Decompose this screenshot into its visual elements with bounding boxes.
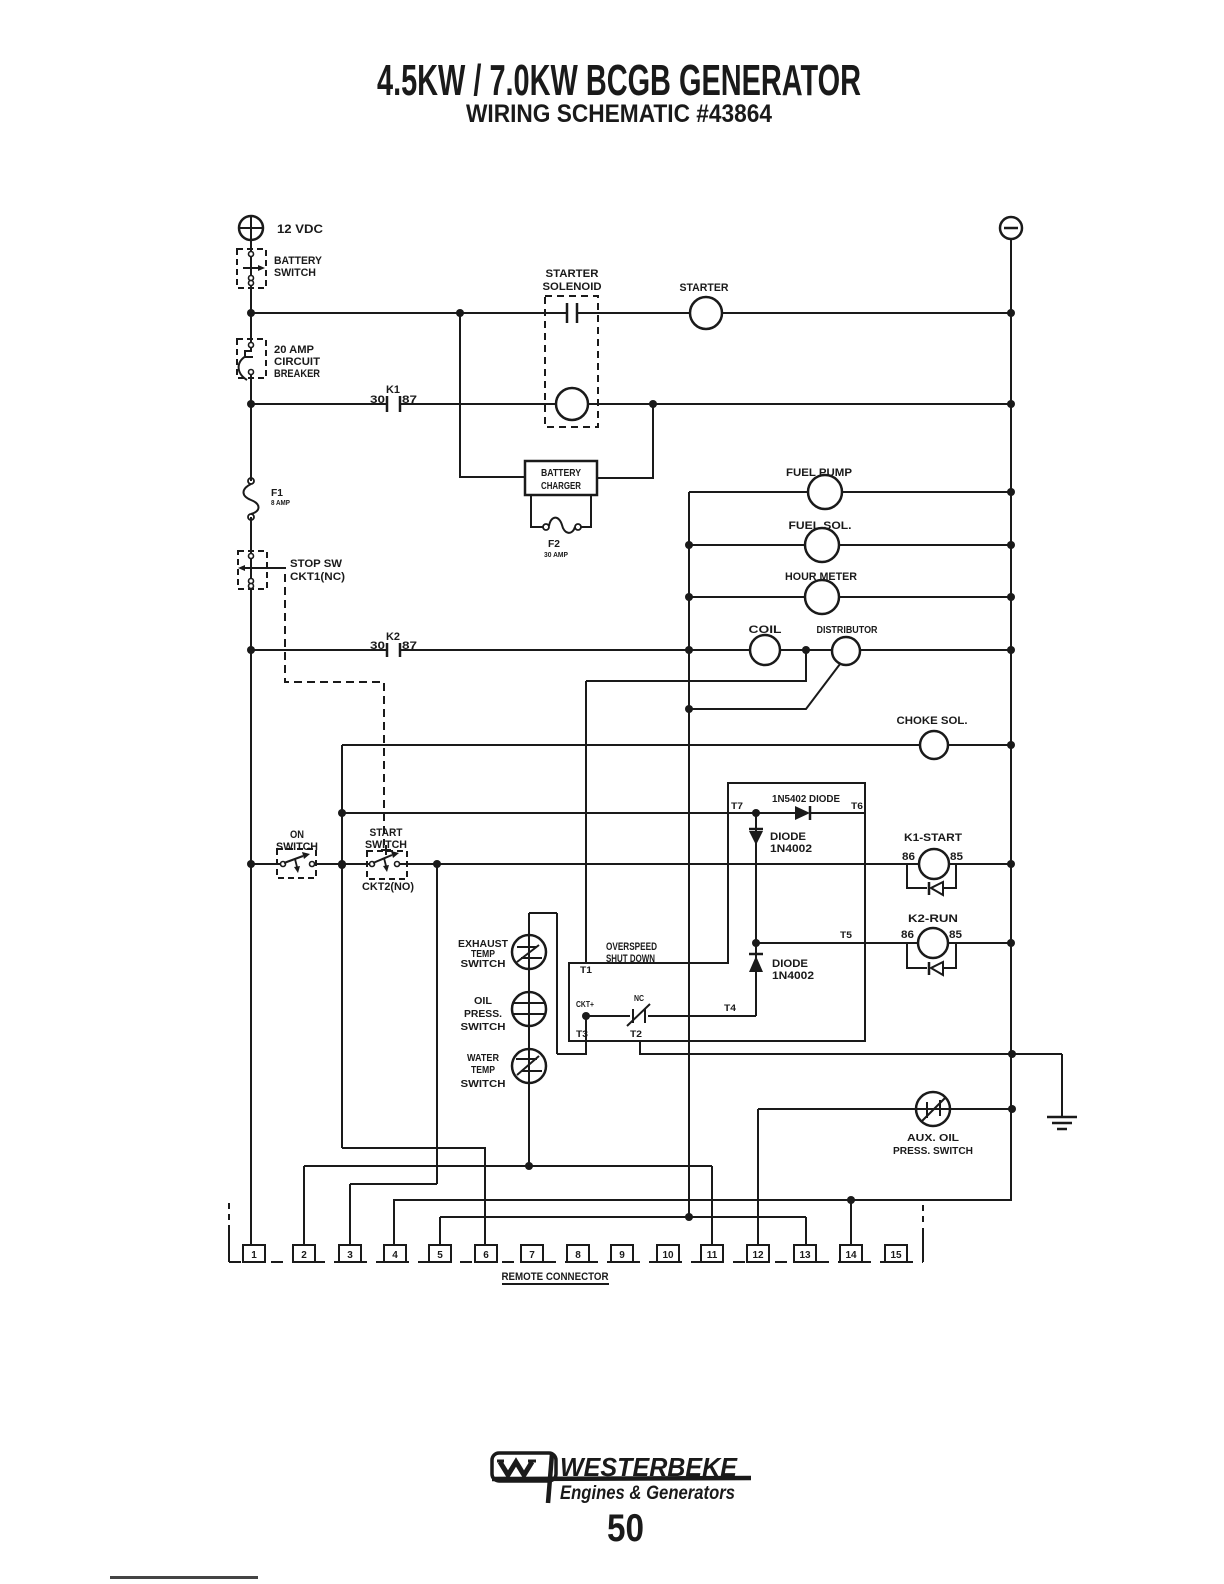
junction: riser x342 / on-start switch rung xyxy=(338,861,346,869)
svg-text:START: START xyxy=(370,827,403,839)
wire: T2 stub down to ground run xyxy=(640,1041,1062,1054)
remote connector pin 14 xyxy=(840,1245,862,1262)
wire: riser x342 choke rung down to pin 6 net xyxy=(341,745,343,1148)
wire: riser to overspeed shutdown terminal T1 xyxy=(585,681,587,963)
START switch CKT2 (NO) (dashed box) xyxy=(367,851,407,879)
wire: drop to pin 14 xyxy=(850,1200,852,1245)
svg-text:WESTERBEKE: WESTERBEKE xyxy=(560,1452,738,1482)
junction: center bus / hour meter rung xyxy=(685,593,693,601)
junction: riser x342 / T7 diode line xyxy=(338,809,346,817)
wire: START switch via K1 relay coil to neg bus xyxy=(399,863,1011,865)
NC contact of overspeed switch xyxy=(632,1009,634,1023)
svg-text:CKT+: CKT+ xyxy=(576,1000,594,1009)
svg-text:1N4002: 1N4002 xyxy=(772,970,814,982)
Westerbeke W glyph xyxy=(500,1462,532,1475)
K1 suppression diode bracket xyxy=(907,864,927,888)
starter solenoid coil xyxy=(556,388,588,420)
svg-text:DISTRIBUTOR: DISTRIBUTOR xyxy=(817,625,879,636)
aux oil pressure switch xyxy=(916,1092,950,1126)
ON switch contact xyxy=(281,862,286,867)
svg-text:14: 14 xyxy=(845,1250,857,1261)
wire: aux oil pressure switch rung xyxy=(758,1108,1012,1110)
wire: stop switch stub to remote dashed link xyxy=(262,567,278,569)
dashed control link: stop switch to start switch actuator xyxy=(278,568,384,845)
junction: left bus / rung 1 xyxy=(247,309,255,317)
battery switch lower contact xyxy=(249,276,254,281)
remote connector pin 15 xyxy=(885,1245,907,1262)
svg-text:SWITCH: SWITCH xyxy=(461,959,506,970)
remote connector pin 11 xyxy=(701,1245,723,1262)
node negative terminal (ground bus) xyxy=(1000,217,1022,239)
svg-text:FUEL PUMP: FUEL PUMP xyxy=(786,467,852,479)
wire: upper 1N4002 branch T7 to T5 xyxy=(755,813,757,943)
junction: rung 2 / neg bus xyxy=(1007,400,1015,408)
circuit breaker 20 AMP (dashed box) xyxy=(237,339,266,378)
remote connector right terminator xyxy=(922,1228,924,1262)
svg-text:1N5402 DIODE: 1N5402 DIODE xyxy=(772,794,840,805)
svg-text:87: 87 xyxy=(402,640,417,652)
svg-text:CKT2(NO): CKT2(NO) xyxy=(362,881,414,893)
water temp switch xyxy=(512,1049,546,1083)
svg-text:2: 2 xyxy=(301,1250,307,1261)
logo underline rule xyxy=(492,1478,751,1479)
junction: center bus / fuel sol rung xyxy=(685,541,693,549)
remote connector left terminator xyxy=(228,1225,230,1262)
wire: riser x437 switch rung to pin3 link xyxy=(436,864,438,1184)
svg-text:11: 11 xyxy=(707,1250,718,1261)
svg-text:T1: T1 xyxy=(580,965,592,975)
remote connector pin 12 xyxy=(747,1245,769,1262)
wire: T7 line to 1N5402 diode anode xyxy=(342,812,795,814)
svg-text:85: 85 xyxy=(949,929,962,941)
fuel pump xyxy=(808,475,842,509)
wire: charger to fuse F2 left xyxy=(531,495,543,527)
battery switch arm arrow xyxy=(243,267,258,269)
breaker upper terminal xyxy=(249,343,254,348)
junction: aux oil rung / neg bus xyxy=(1008,1105,1016,1113)
wire: drop to pin 3 xyxy=(349,1184,351,1245)
svg-text:T2: T2 xyxy=(630,1029,642,1039)
wire: ON switch to START switch xyxy=(314,863,369,865)
breaker lower terminal xyxy=(249,370,254,375)
svg-text:12 VDC: 12 VDC xyxy=(277,222,323,236)
junction: center bus / distributor tap xyxy=(685,705,693,713)
wire: switch-rung net to pin 3 xyxy=(350,1183,437,1185)
remote connector pin 7 xyxy=(521,1245,543,1262)
battery switch upper contact xyxy=(249,252,254,257)
svg-text:T6: T6 xyxy=(851,801,863,811)
ON switch arm xyxy=(284,856,303,863)
wire: lower 1N4002 branch T5 to T4 xyxy=(755,943,757,1016)
svg-text:K1: K1 xyxy=(386,384,400,396)
svg-text:13: 13 xyxy=(799,1250,811,1261)
svg-text:1N4002: 1N4002 xyxy=(770,843,812,855)
node +12VDC battery positive terminal xyxy=(239,216,263,240)
wire: choke solenoid rung xyxy=(342,744,1011,746)
wire: drop to pin 2 xyxy=(303,1166,305,1245)
svg-text:REMOTE CONNECTOR: REMOTE CONNECTOR xyxy=(502,1271,609,1283)
svg-text:4.5KW / 7.0KW BCGB GENERATOR: 4.5KW / 7.0KW BCGB GENERATOR xyxy=(377,56,861,105)
wire: rung 1 right segment (solenoid contact via starter to neg bus) xyxy=(577,312,1011,314)
svg-text:OVERSPEED: OVERSPEED xyxy=(606,941,657,953)
svg-text:5: 5 xyxy=(437,1250,443,1261)
wire: fuel solenoid rung xyxy=(689,544,1011,546)
junction: neg net / pin 14 drop xyxy=(847,1196,855,1204)
svg-text:WIRING SCHEMATIC #43864: WIRING SCHEMATIC #43864 xyxy=(466,100,772,128)
svg-text:COIL: COIL xyxy=(749,624,782,636)
svg-text:DIODE: DIODE xyxy=(772,958,808,970)
distributor xyxy=(832,637,860,665)
wire: rung 2 right segment (K1 87 via solenoid coil to neg bus) xyxy=(400,403,1011,405)
wire: right negative bus from (-) terminal down and across to pin 4 xyxy=(394,239,1011,1245)
svg-text:4: 4 xyxy=(392,1250,398,1261)
junction: T7 line / 1N4002 branch xyxy=(752,809,760,817)
wire: rung 3 left segment (bus to K2 contact 30) xyxy=(251,649,387,651)
svg-text:PRESS.: PRESS. xyxy=(464,1009,502,1020)
wire: center-bus net pin5 to pin13 xyxy=(440,1216,806,1218)
starter motor STARTER xyxy=(690,297,722,329)
svg-text:WATER: WATER xyxy=(467,1053,500,1064)
START switch arm xyxy=(373,855,392,863)
overspeed shutdown module boundary box xyxy=(569,783,865,1041)
relay contact K2 30/87 xyxy=(386,643,389,657)
svg-text:3: 3 xyxy=(347,1250,353,1261)
relay coil K2-RUN xyxy=(918,928,948,958)
scan artifact bar bottom left xyxy=(110,1576,258,1579)
wire: NC contact to T4 riser xyxy=(648,1015,756,1017)
wire: choke net riser to pin 6 xyxy=(342,1148,485,1245)
svg-text:K2: K2 xyxy=(386,631,400,643)
svg-text:CIRCUIT: CIRCUIT xyxy=(274,356,320,368)
svg-text:9: 9 xyxy=(619,1250,625,1261)
junction: rung 3 / neg bus xyxy=(1007,646,1015,654)
battery charger xyxy=(525,461,597,495)
remote connector dashed baseline xyxy=(229,1261,923,1263)
wire: sender chain net pin2 to pin11 xyxy=(304,1165,712,1167)
svg-text:SWITCH: SWITCH xyxy=(276,841,318,853)
wire: rung 3 right segment (K2 87 via coil+distributor to neg bus) xyxy=(400,649,1011,651)
diode D2 1N4002 (upper, cathode up) xyxy=(749,828,763,831)
wire: T3 riser x557 xyxy=(556,913,558,1054)
svg-text:12: 12 xyxy=(752,1250,764,1261)
svg-text:STARTER: STARTER xyxy=(546,268,599,280)
svg-text:Engines & Generators: Engines & Generators xyxy=(560,1483,735,1504)
wire: sender chain vertical xyxy=(528,913,530,1166)
junction: CKT+ node xyxy=(582,1012,590,1020)
stop switch CKT1 (NC) dashed box xyxy=(238,551,267,589)
wire: fuel pump rung xyxy=(689,491,1011,493)
starter solenoid dashed enclosure xyxy=(545,296,598,427)
junction: left bus / rung 3 xyxy=(247,646,255,654)
svg-text:SWITCH: SWITCH xyxy=(461,1022,506,1033)
junction: choke rung / neg bus xyxy=(1007,741,1015,749)
junction: K1 rung / neg bus xyxy=(1007,860,1015,868)
svg-text:OIL: OIL xyxy=(474,996,492,1007)
wire: left +12V bus, 12VDC to breaker xyxy=(250,240,252,345)
svg-text:DIODE: DIODE xyxy=(770,831,806,843)
relay coil K1-START xyxy=(919,849,949,879)
remote connector pin 8 xyxy=(567,1245,589,1262)
remote connector pin 3 xyxy=(339,1245,361,1262)
stop switch lower contact xyxy=(249,579,254,584)
remote connector pin 4 xyxy=(384,1245,406,1262)
Westerbeke logo tail stroke xyxy=(548,1454,552,1503)
svg-text:SOLENOID: SOLENOID xyxy=(543,281,602,293)
svg-text:30 AMP: 30 AMP xyxy=(544,552,568,559)
junction: hour meter rung / neg bus xyxy=(1007,593,1015,601)
svg-text:SWITCH: SWITCH xyxy=(365,839,407,851)
svg-text:7: 7 xyxy=(529,1250,535,1261)
svg-text:F2: F2 xyxy=(548,539,560,550)
junction: rung 2 / charger return xyxy=(649,400,657,408)
junction: rung 3 / coil-distributor tap xyxy=(802,646,810,654)
svg-text:TEMP: TEMP xyxy=(471,1065,495,1076)
remote connector pin 1 xyxy=(243,1245,265,1262)
svg-text:T4: T4 xyxy=(724,1003,736,1013)
wire: charger to fuse F2 right xyxy=(581,495,591,527)
remote connector pin 13 xyxy=(794,1245,816,1262)
svg-text:CKT1(NC): CKT1(NC) xyxy=(290,571,345,583)
junction: T2 ground run / neg bus xyxy=(1008,1050,1016,1058)
oil pressure switch xyxy=(512,992,546,1026)
exhaust temp switch xyxy=(512,935,546,969)
wire: center accessory bus (fuel pump line down to pin5/13 net) xyxy=(688,492,690,1217)
START switch contact xyxy=(370,862,375,867)
wire: drop to pin 11 xyxy=(711,1166,713,1245)
breaker trip element xyxy=(245,347,253,357)
remote connector pin 9 xyxy=(611,1245,633,1262)
junction: switch rung / pin 3 riser xyxy=(433,860,441,868)
wire: drop to pin 5 xyxy=(439,1217,441,1245)
wire: charger lead to rung 2 xyxy=(597,404,653,478)
wire: left bus, fuse F1 down to connector pin 1 xyxy=(250,517,252,1245)
junction: branch / K2 run rung T5 xyxy=(752,939,760,947)
svg-text:8 AMP: 8 AMP xyxy=(271,500,290,507)
START switch actuator plus mark xyxy=(381,849,391,851)
svg-text:SWITCH: SWITCH xyxy=(461,1079,506,1090)
wire: ground drop xyxy=(1061,1054,1063,1117)
svg-text:BATTERY: BATTERY xyxy=(541,468,581,479)
battery switch (dashed box) xyxy=(237,249,266,288)
ignition coil COIL xyxy=(750,635,780,665)
choke solenoid CHOKE SOL. xyxy=(920,731,948,759)
starter solenoid contact (normally open) on rung 1 xyxy=(566,303,569,323)
fuel solenoid FUEL SOL. xyxy=(805,528,839,562)
svg-text:ON: ON xyxy=(290,829,304,841)
START switch actuator arrow xyxy=(384,858,386,866)
junction: fuel sol rung / neg bus xyxy=(1007,541,1015,549)
svg-text:10: 10 xyxy=(662,1250,674,1261)
wire: T5 rung to K2 relay coil to neg bus xyxy=(756,942,1011,944)
ON switch (dashed box) xyxy=(277,849,316,878)
junction: fuel pump rung / neg bus xyxy=(1007,488,1015,496)
svg-text:STOP SW: STOP SW xyxy=(290,558,343,570)
ground symbol xyxy=(1047,1116,1077,1119)
wire: CKT+ to NC contact xyxy=(586,1015,630,1017)
svg-text:BREAKER: BREAKER xyxy=(274,368,320,380)
svg-text:T3: T3 xyxy=(576,1029,588,1039)
svg-text:30: 30 xyxy=(370,640,385,652)
svg-text:8: 8 xyxy=(575,1250,581,1261)
junction: rung 1 / battery charger feed xyxy=(456,309,464,317)
wire: left bus, breaker to fuse F1 xyxy=(250,373,252,481)
svg-text:HOUR METER: HOUR METER xyxy=(785,571,857,583)
svg-text:BATTERY: BATTERY xyxy=(274,255,323,267)
junction: sender chain / pin2-pin11 net xyxy=(525,1162,533,1170)
hour meter xyxy=(805,580,839,614)
wire: switch rung from left bus to ON switch xyxy=(251,863,280,865)
svg-text:85: 85 xyxy=(950,851,963,863)
Westerbeke logo box xyxy=(492,1453,556,1481)
junction: K2 rung / neg bus xyxy=(1007,939,1015,947)
wire: 1N5402 cathode to module edge T6 xyxy=(810,812,865,814)
junction: switch rung / riser x342 xyxy=(338,860,346,868)
wire: aux oil rung riser down to pin 12 xyxy=(757,1109,759,1245)
svg-text:K2-RUN: K2-RUN xyxy=(908,913,958,925)
wire: center bus tap to distributor points (diagonal) xyxy=(689,664,840,709)
svg-text:86: 86 xyxy=(902,851,915,863)
fuse F1 8 AMP xyxy=(248,478,254,484)
svg-text:50: 50 xyxy=(607,1507,644,1550)
wire: charger positive lead from rung 1 xyxy=(460,313,525,477)
svg-text:87: 87 xyxy=(402,394,417,406)
svg-text:K1-START: K1-START xyxy=(904,832,962,844)
svg-text:FUEL SOL.: FUEL SOL. xyxy=(789,520,852,532)
svg-text:30: 30 xyxy=(370,394,385,406)
wire: coil tap down-left to overspeed T1 riser xyxy=(586,650,806,681)
svg-text:SHUT DOWN: SHUT DOWN xyxy=(606,953,655,965)
diode D1 1N5402 xyxy=(795,806,810,820)
junction: rung 1 / neg bus xyxy=(1007,309,1015,317)
stop switch upper contact xyxy=(249,554,254,559)
K2 suppression diode bracket xyxy=(907,943,927,968)
svg-text:SWITCH: SWITCH xyxy=(274,267,316,279)
junction: center bus / pin5-13 net xyxy=(685,1213,693,1221)
wire: hour meter rung xyxy=(689,596,1011,598)
svg-text:F1: F1 xyxy=(271,488,283,499)
breaker arc quench curve xyxy=(239,356,247,380)
wire: drop to pin 13 xyxy=(805,1217,807,1245)
svg-text:NC: NC xyxy=(634,994,644,1003)
wire: sender chain top to T3 riser xyxy=(529,912,557,914)
remote connector pin 2 xyxy=(293,1245,315,1262)
remote connector pin 10 xyxy=(657,1245,679,1262)
diode D3 1N4002 (lower, cathode up) xyxy=(749,953,763,956)
remote connector pin 6 xyxy=(475,1245,497,1262)
stop switch arm arrow (points left) xyxy=(245,567,262,569)
svg-text:20 AMP: 20 AMP xyxy=(274,344,314,356)
svg-text:CHOKE SOL.: CHOKE SOL. xyxy=(897,715,968,727)
wire: T3 stub from CKT+ down and left to sender chain xyxy=(557,1016,586,1054)
junction: left bus / switch rung xyxy=(247,860,255,868)
svg-text:1: 1 xyxy=(251,1250,257,1261)
svg-text:STARTER: STARTER xyxy=(680,282,729,294)
fuse F2 30 AMP xyxy=(543,524,549,530)
wire: rung 2 left segment (bus to K1 contact 30) xyxy=(251,403,387,405)
svg-text:86: 86 xyxy=(901,929,914,941)
svg-text:T7: T7 xyxy=(731,801,743,811)
junction: left bus / rung 2 xyxy=(247,400,255,408)
svg-text:T5: T5 xyxy=(840,930,852,940)
svg-text:AUX. OIL: AUX. OIL xyxy=(907,1133,959,1144)
junction: center bus / rung 3 xyxy=(685,646,693,654)
svg-text:15: 15 xyxy=(890,1250,902,1261)
remote connector pin 5 xyxy=(429,1245,451,1262)
ON switch actuator arrow xyxy=(295,859,297,867)
svg-text:PRESS. SWITCH: PRESS. SWITCH xyxy=(893,1146,973,1157)
wire: rung 1 left segment (battery to starter solenoid contact) xyxy=(251,312,567,314)
relay contact K1 30/87 xyxy=(386,396,389,412)
svg-text:CHARGER: CHARGER xyxy=(541,481,582,492)
svg-text:6: 6 xyxy=(483,1250,489,1261)
